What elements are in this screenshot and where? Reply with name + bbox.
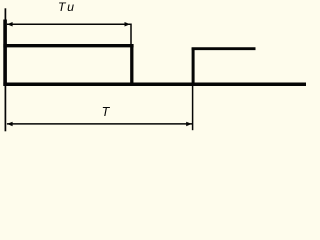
dimension line Tu bbox=[7, 23, 132, 25]
wire pulse1 rising edge bbox=[3, 20, 7, 86]
wire pulse1 top bbox=[3, 44, 133, 47]
arrow Tu left bbox=[7, 22, 13, 27]
arrow T right bbox=[186, 122, 192, 127]
arrow T left bbox=[7, 122, 13, 127]
wire pulse2 top bbox=[192, 47, 256, 50]
extension line Tu right (x=131) bbox=[130, 24, 132, 46]
extension line T right (x=192.6) bbox=[192, 85, 194, 130]
extension line left (x=5.4) bbox=[4, 8, 6, 131]
wire baseline bbox=[3, 82, 306, 86]
wire pulse1 falling edge bbox=[130, 44, 133, 86]
svg-text:Tu: Tu bbox=[58, 0, 77, 14]
wire pulse2 rising edge bbox=[192, 48, 195, 86]
dimension line T bbox=[7, 123, 192, 125]
arrow Tu right bbox=[125, 22, 131, 27]
